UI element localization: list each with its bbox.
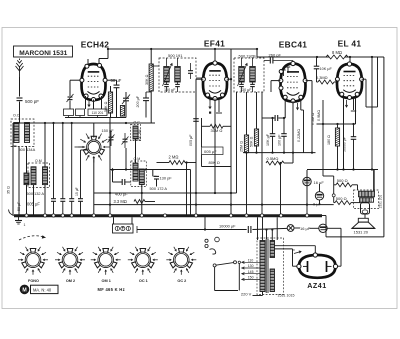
tube EBC41 — [279, 61, 307, 103]
wire sec tap to AZ41 cathode — [275, 245, 316, 247]
svg-text:50000 μF: 50000 μF — [342, 137, 346, 152]
capacitor 260pF — [270, 58, 273, 64]
wire EL41 plate right — [362, 78, 366, 80]
trimmer arrow — [122, 95, 130, 105]
svg-text:100 μF: 100 μF — [277, 134, 281, 146]
capacitor 130pF — [154, 176, 159, 179]
svg-text:O.C: O.C — [134, 121, 141, 125]
wire trim down — [125, 101, 127, 117]
capacitor decoupling — [69, 199, 74, 202]
IF transformer 500 191 — [159, 58, 196, 92]
transformer core b — [267, 239, 269, 293]
svg-text:x: x — [293, 248, 295, 252]
wire 190 column — [190, 170, 192, 216]
capacitor 005uF EF41 — [193, 119, 199, 122]
wire into output transformer — [373, 170, 375, 192]
coil antenna OC sec — [25, 123, 30, 143]
capacitor T2 sec tune — [250, 84, 255, 86]
wire switch down to bus — [93, 158, 95, 216]
wire right border column — [383, 57, 385, 237]
svg-text:0.5M Ω: 0.5M Ω — [311, 113, 315, 125]
power transformer 1531 1015 — [257, 238, 284, 295]
svg-text:220 V: 220 V — [241, 291, 252, 296]
transformer core a — [265, 239, 267, 293]
capacitor T2 pri tune — [239, 84, 244, 86]
wire HT rail right-2 — [345, 56, 384, 58]
wire antenna down — [19, 77, 21, 97]
cathode arrow EL41 a — [345, 100, 347, 107]
selector arm — [216, 263, 234, 266]
svg-text:2 MΩ: 2 MΩ — [169, 155, 179, 160]
wire to ECH42 top pin — [99, 58, 108, 60]
wire 45 column lower — [44, 185, 46, 216]
svg-text:9 μF: 9 μF — [313, 201, 322, 206]
terminal circle — [215, 237, 220, 242]
capacitor T1 pri tune — [164, 84, 169, 86]
svg-text:1: 1 — [24, 223, 26, 227]
wire bus drop to row A — [204, 217, 206, 230]
wire cap down — [316, 69, 318, 82]
wire row 169 right — [307, 169, 378, 171]
wire 307 column — [306, 170, 308, 216]
coil antenna OM pri — [31, 167, 36, 185]
svg-text:EF41: EF41 — [204, 39, 225, 49]
wire OC sec down — [26, 146, 28, 173]
wire T1 to EF41 grid — [196, 77, 203, 79]
svg-text:ECH42: ECH42 — [81, 40, 110, 50]
resistor 30K screen — [149, 64, 153, 91]
wire res top — [110, 86, 112, 92]
svg-text:OM 1: OM 1 — [102, 279, 111, 283]
wire 45 column upper — [44, 123, 46, 167]
tube EF41 — [201, 61, 228, 101]
capacitor 200uF — [143, 98, 149, 101]
svg-text:500 Ω: 500 Ω — [337, 178, 348, 183]
electrolytic 9uF — [315, 192, 323, 200]
tap 145 — [242, 273, 261, 275]
svg-text:1531 201: 1531 201 — [378, 195, 382, 209]
wire res bottom — [110, 113, 112, 118]
trimmer capacitor antenna — [68, 97, 73, 100]
speaker — [358, 218, 368, 222]
wire coil OC-OM link — [135, 139, 137, 163]
capacitor 10KuF — [270, 134, 276, 137]
title box MARCONI 1531 — [14, 46, 73, 57]
svg-text:500 132 A: 500 132 A — [27, 191, 45, 196]
svg-text:1531 1015: 1531 1015 — [278, 293, 295, 297]
svg-text:EBC41: EBC41 — [279, 40, 308, 50]
tube EL41 — [335, 62, 363, 100]
wire bottom right box — [326, 236, 384, 238]
wire 50uF down — [116, 88, 118, 118]
switch section box b — [76, 109, 85, 116]
svg-text:500 184: 500 184 — [138, 129, 142, 141]
capacitor 400pF — [122, 179, 125, 185]
svg-text:145: 145 — [248, 270, 254, 274]
coil osc OM a — [133, 163, 138, 181]
capacitor 10KpF — [314, 66, 320, 69]
wire EF41 left pin — [196, 78, 203, 80]
wire 130pF down — [156, 179, 158, 187]
svg-text:500 134A: 500 134A — [19, 147, 36, 152]
switch section box a — [64, 109, 74, 116]
wire EBC41 plate right — [306, 80, 312, 82]
wire EF41 pin a — [209, 96, 211, 102]
svg-text:O.M: O.M — [134, 157, 141, 161]
svg-text:50 μF: 50 μF — [17, 201, 21, 211]
wire 30K bottom — [150, 91, 152, 123]
svg-text:MA. N: 40: MA. N: 40 — [33, 287, 52, 292]
coil T2 sec — [250, 67, 256, 83]
wire far-left down — [12, 146, 14, 216]
arrow AVC — [111, 169, 113, 177]
dial lamp box — [113, 224, 134, 233]
wire left column b — [18, 146, 20, 216]
svg-text:500 Ω: 500 Ω — [336, 196, 347, 201]
coil osc OC — [133, 126, 138, 139]
arrow T2 tune — [238, 64, 248, 87]
wire EL41 cathode down — [343, 97, 345, 170]
wire 25M top — [246, 92, 248, 135]
svg-text:260 pF: 260 pF — [269, 53, 282, 58]
resistor 500ohm b — [335, 201, 351, 205]
diode plates EBC41 — [283, 70, 285, 76]
knob OM 2 — [55, 247, 85, 275]
svg-text:180 Ω: 180 Ω — [327, 135, 331, 145]
cathode arrow EBC41 — [296, 103, 298, 110]
tap 150 — [242, 278, 261, 280]
wire EBC41 cathode down — [292, 101, 294, 163]
wire volume to bus — [280, 163, 282, 216]
wire 333 column — [333, 176, 335, 203]
wire 262 column lower — [261, 118, 263, 163]
pins EBC41 diodes — [279, 70, 283, 74]
mains switch circles — [205, 239, 208, 242]
capacitor 10000uF — [248, 226, 251, 233]
bar EL41 g3 — [351, 110, 356, 112]
wire row 169 — [110, 169, 191, 171]
svg-text:005 μF: 005 μF — [204, 149, 217, 154]
wire bus to transformer a — [257, 217, 259, 240]
svg-text:200 μF: 200 μF — [136, 95, 140, 107]
electrolytic 16uF a — [303, 177, 311, 185]
coil antenna OM sec — [43, 167, 48, 185]
wire OM coupling to bus — [26, 185, 28, 216]
cathode arrow ECH42 — [88, 101, 90, 107]
wire EF41 cathode down — [214, 99, 216, 194]
svg-text:10000 μF: 10000 μF — [219, 224, 236, 229]
capacitor decoupling — [51, 199, 56, 202]
wire 0.22M column — [303, 110, 305, 153]
svg-text:0.9MΩ: 0.9MΩ — [317, 110, 321, 121]
resistor 3.3M — [134, 200, 145, 204]
svg-text:0.3MΩ: 0.3MΩ — [316, 75, 328, 80]
wire down right — [325, 216, 327, 237]
svg-text:OC 2: OC 2 — [177, 279, 186, 283]
wire 110 column — [109, 118, 111, 216]
wire EF41 right pin — [227, 78, 231, 80]
capacitor T1 trim — [188, 71, 193, 74]
capacitor decoupling — [78, 199, 83, 202]
wire cap column — [80, 150, 82, 198]
wire cap column — [71, 123, 73, 198]
tap 110 — [242, 261, 261, 263]
transformer sec bottom — [270, 269, 274, 292]
arrow x heater — [294, 251, 301, 254]
wire 130pF top — [152, 170, 154, 177]
wire row A mid — [252, 228, 287, 229]
coil T1 sec — [175, 67, 181, 83]
wire to 50uF cap — [116, 80, 118, 85]
wire T2 to cap — [264, 60, 270, 62]
wire EBC41 pin a — [284, 100, 286, 118]
knob OC 1 — [128, 247, 158, 275]
wire cap column — [62, 123, 64, 198]
svg-text:130 μF: 130 μF — [164, 88, 176, 92]
svg-text:500 pF: 500 pF — [25, 99, 39, 104]
wire to EBC41 topcap — [292, 61, 294, 63]
wire EBC41 pin c — [300, 100, 302, 110]
cathode arrow EF41 a — [209, 101, 211, 109]
speaker base — [352, 227, 375, 229]
wire row 193 — [94, 192, 237, 194]
svg-text:0.22MΩ: 0.22MΩ — [297, 129, 301, 142]
knob FONO — [18, 247, 48, 275]
coil antenna OC pri — [14, 123, 19, 143]
bar EF41 g3 — [216, 112, 222, 114]
trimmer capacitor osc a — [109, 137, 114, 140]
wire cap column — [53, 123, 55, 198]
coil osc OM b — [139, 169, 144, 185]
svg-text:25M Ω: 25M Ω — [240, 141, 244, 152]
svg-text:16 μF: 16 μF — [300, 226, 311, 231]
wire EL41 g3 — [353, 99, 355, 110]
wire mains a — [215, 290, 238, 292]
resistor pad — [120, 106, 124, 117]
tube ECH42 — [80, 63, 107, 101]
wire row 166 — [202, 166, 232, 168]
svg-text:0.5MΩ: 0.5MΩ — [267, 156, 279, 161]
wire ECH42 pin a — [85, 96, 87, 109]
wire primary bottom — [262, 292, 264, 296]
tap 130 — [242, 267, 261, 269]
capacitor decoupling — [60, 199, 65, 202]
wire rail drop ECH42 — [107, 49, 109, 59]
pilot lamp — [287, 225, 294, 232]
knob OC 2 — [166, 247, 196, 275]
wire EBC41 diode out — [271, 80, 280, 82]
coil box OM osc — [131, 161, 147, 187]
svg-text:10K μF: 10K μF — [320, 67, 333, 71]
resistor 8M screen — [326, 55, 348, 59]
wire row 152 — [243, 152, 316, 154]
svg-text:O.C: O.C — [13, 114, 20, 118]
antenna — [16, 59, 24, 78]
wire ECH42 grid left — [70, 79, 81, 81]
wire 312 column — [311, 81, 313, 153]
resistor 180ohm — [335, 128, 339, 146]
coil box OM 500 132A — [28, 163, 50, 188]
wire 30K top — [150, 49, 152, 64]
resistor 50K — [108, 92, 112, 113]
wire row A right — [327, 227, 341, 229]
capacitor diode filter — [275, 115, 278, 121]
svg-text:500 192B: 500 192B — [239, 54, 256, 59]
bus heavy — [14, 214, 322, 217]
capacitor 50uF — [114, 85, 120, 88]
wire OM pri down — [33, 185, 35, 216]
electrolytic 16uF b — [319, 224, 327, 232]
ground symbol — [18, 217, 20, 220]
svg-text:3.3 MΩ: 3.3 MΩ — [114, 199, 127, 204]
svg-text:O.M: O.M — [35, 159, 42, 163]
resistor 30M — [210, 124, 223, 128]
wire 262 column upper — [261, 92, 263, 118]
svg-text:OM 2: OM 2 — [66, 279, 75, 283]
svg-text:16 μF: 16 μF — [314, 180, 325, 185]
box 110 201 — [88, 109, 107, 116]
capacitor 500pF antenna — [17, 98, 23, 101]
wire under boxes — [65, 117, 126, 119]
svg-text:130: 130 — [248, 264, 254, 268]
svg-text:130 pF: 130 pF — [160, 175, 173, 180]
transformer primary — [260, 241, 265, 292]
capacitor T1 sec tune — [175, 84, 180, 86]
wire bus to primary — [262, 217, 264, 240]
resistor 25M — [244, 135, 248, 153]
wire 200uF top — [145, 92, 147, 98]
bus left curl — [9, 210, 15, 216]
svg-text:OC 1: OC 1 — [139, 279, 148, 283]
coil T1 pri — [164, 67, 170, 83]
svg-text:500 191: 500 191 — [168, 53, 183, 58]
arrow T1 tune — [163, 64, 173, 87]
svg-text:15 μF: 15 μF — [75, 187, 79, 196]
wire arm down — [214, 267, 216, 291]
svg-text:30M Ω: 30M Ω — [211, 128, 223, 133]
wire EL41 pin c down — [355, 97, 357, 124]
wire to EL41 grid pin — [336, 80, 338, 82]
wire 372 column — [371, 57, 373, 124]
rotary band switch — [78, 134, 109, 163]
tube AZ41 — [297, 253, 338, 278]
svg-text:150 pF: 150 pF — [102, 128, 115, 133]
wire ECH42 pin c — [101, 96, 103, 109]
wire mains b — [253, 295, 263, 297]
svg-text:35 Ω: 35 Ω — [7, 186, 11, 194]
svg-text:8 MΩ: 8 MΩ — [332, 50, 342, 55]
svg-text:50K Ω: 50K Ω — [250, 136, 254, 147]
wire left link — [13, 145, 17, 147]
svg-text:005 μF: 005 μF — [189, 134, 193, 146]
wire lamp box to bus R — [131, 217, 133, 224]
wire plate to T1 — [151, 65, 159, 67]
trimmer arrow antenna — [67, 94, 74, 102]
wire 186 column — [186, 163, 188, 216]
svg-text:150: 150 — [248, 276, 254, 280]
wire lamp box to bus L — [113, 217, 115, 224]
wire selector down — [238, 264, 240, 291]
svg-text:110 201: 110 201 — [92, 111, 104, 115]
wire switch top — [93, 123, 95, 138]
svg-text:EL 41: EL 41 — [338, 39, 362, 49]
wire section top line — [13, 122, 155, 124]
wire ECH42 top-left stub — [87, 59, 89, 65]
wire trim b down — [125, 148, 127, 170]
coil OM coupling — [24, 173, 29, 185]
logo MA N 40 — [20, 285, 30, 295]
svg-text:MF 465 K Hz: MF 465 K Hz — [98, 287, 125, 292]
box 005uF — [202, 147, 224, 155]
wire rail step — [256, 49, 258, 57]
resistor 2M — [169, 161, 185, 165]
wire ECH42 plate right — [107, 79, 117, 81]
wire bus to transformer d — [276, 217, 278, 240]
wire top pin stub — [98, 59, 100, 65]
wire 196 column — [195, 79, 197, 215]
wire 25M bottom — [246, 153, 248, 216]
wire heater row A — [137, 229, 247, 231]
wire 377 column — [377, 57, 379, 107]
IF transformer 500 192B — [234, 58, 264, 92]
coil T2 pri — [239, 67, 245, 83]
wire sec tap to AZ41 left — [275, 248, 293, 250]
wire 200uF down — [145, 101, 147, 118]
wire row 204 — [94, 204, 334, 206]
wire antenna to coils — [19, 102, 21, 124]
svg-text:400 pF: 400 pF — [115, 191, 128, 196]
wire cap top — [316, 57, 318, 66]
trimmer capacitor osc b — [123, 139, 128, 142]
svg-text:M: M — [22, 287, 26, 293]
wire HT rail right-1 — [257, 56, 329, 58]
svg-text:110: 110 — [248, 259, 254, 263]
dashed rotation arc — [19, 236, 46, 240]
resistor 500ohm a — [336, 183, 352, 187]
svg-text:80K Ω: 80K Ω — [209, 160, 220, 165]
svg-text:500 172 A: 500 172 A — [150, 186, 168, 191]
wire avc link — [112, 170, 114, 182]
coil box OC osc — [131, 125, 141, 141]
wire 231 column — [230, 49, 232, 216]
wire grid down — [69, 80, 71, 96]
svg-text:AZ41: AZ41 — [307, 281, 327, 290]
wire row 124 — [317, 123, 356, 125]
svg-text:10K μF: 10K μF — [266, 133, 270, 146]
wire 400pF row — [113, 181, 122, 183]
output transformer 1531 201 — [354, 190, 379, 209]
stub row A — [136, 226, 138, 233]
wire diode row — [262, 117, 275, 119]
svg-text:FONO: FONO — [28, 279, 39, 283]
resistor 50K mid — [254, 129, 258, 146]
svg-text:1531 20: 1531 20 — [354, 230, 369, 235]
svg-text:30K Ω: 30K Ω — [145, 74, 149, 85]
transformer sec top — [270, 241, 274, 258]
wire EF41 topcap — [214, 49, 216, 61]
speaker magnet — [361, 203, 370, 214]
wire ECH42 pin b — [93, 100, 95, 110]
svg-text:MARCONI 1531: MARCONI 1531 — [19, 50, 67, 57]
wire 236 column — [236, 92, 238, 193]
wire into switch — [75, 146, 86, 148]
wire HT rail left — [108, 48, 257, 50]
trimmer capacitor ECH42 — [123, 98, 129, 101]
wire trim top — [125, 92, 127, 98]
resistor 0.3M grid — [318, 80, 334, 84]
capacitor 50000uF — [351, 137, 357, 140]
wire 0.9M column — [322, 100, 324, 130]
